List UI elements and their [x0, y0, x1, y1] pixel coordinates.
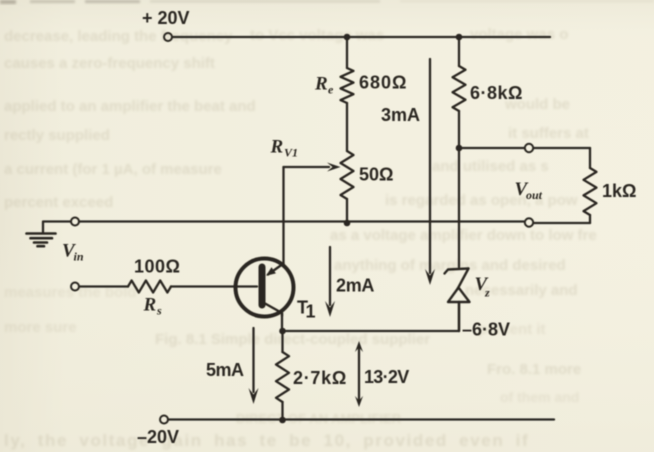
svg-text:V1: V1 — [284, 146, 298, 160]
svg-text:–20V: –20V — [137, 427, 179, 447]
svg-text:and utilised as s: and utilised as s — [432, 158, 549, 175]
svg-text:z: z — [484, 286, 490, 300]
svg-text:R: R — [314, 74, 328, 95]
svg-text:R: R — [270, 137, 284, 158]
svg-text:Fro. 8.1 more: Fro. 8.1 more — [487, 361, 581, 378]
svg-text:1: 1 — [306, 302, 316, 322]
svg-text:100Ω: 100Ω — [134, 257, 180, 277]
svg-text:2·7kΩ: 2·7kΩ — [293, 368, 347, 388]
svg-text:680Ω: 680Ω — [359, 73, 407, 93]
svg-text:ly, the voltage gain has te be: ly, the voltage gain has te be 10, provi… — [4, 431, 529, 450]
svg-text:3mA: 3mA — [381, 105, 420, 125]
svg-text:is regarded as open, a pow: is regarded as open, a pow — [385, 192, 578, 209]
svg-text:50Ω: 50Ω — [359, 165, 393, 185]
svg-text:causes a zero-frequency shift: causes a zero-frequency shift — [4, 55, 215, 72]
svg-text:percent exceed: percent exceed — [4, 194, 113, 211]
svg-text:rectly supplied: rectly supplied — [4, 127, 110, 144]
svg-text:more sure: more sure — [4, 319, 77, 336]
svg-text:–6·8V: –6·8V — [462, 320, 510, 340]
svg-text:e: e — [328, 83, 334, 97]
svg-text:+ 20V: + 20V — [142, 8, 190, 28]
svg-text:in: in — [74, 250, 84, 264]
svg-text:as a voltage amplifier down to: as a voltage amplifier down to low fre — [330, 227, 597, 244]
svg-text:13·2V: 13·2V — [364, 367, 409, 387]
svg-text:it suffers at: it suffers at — [508, 125, 589, 142]
svg-text:out: out — [526, 188, 543, 202]
svg-text:applied to an amplifier the be: applied to an amplifier the beat and — [4, 98, 256, 115]
svg-text:5mA: 5mA — [206, 360, 244, 380]
svg-text:6·8kΩ: 6·8kΩ — [470, 83, 523, 103]
svg-text:a current (for 1 µA, of measur: a current (for 1 µA, of measure — [4, 161, 222, 178]
svg-text:R: R — [143, 295, 157, 316]
svg-text:s: s — [156, 304, 162, 318]
svg-text:to Vcc voltage was: to Vcc voltage was — [250, 27, 384, 44]
svg-text:2mA: 2mA — [336, 276, 374, 296]
svg-text:voltage was o: voltage was o — [470, 26, 568, 43]
svg-text:anything of margins and desire: anything of margins and desired — [334, 257, 566, 274]
svg-text:Fig. 8.1 Simple direct-couple: Fig. 8.1 Simple direct-coupled supplier — [155, 331, 430, 348]
svg-text:1kΩ: 1kΩ — [602, 181, 636, 201]
svg-text:of them and: of them and — [500, 389, 579, 405]
